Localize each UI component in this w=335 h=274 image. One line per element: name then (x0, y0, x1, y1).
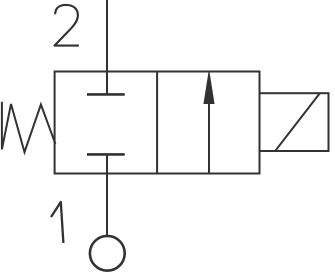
flow arrow stem (208, 101, 210, 174)
valve position divider (156, 72, 158, 174)
wire: port 1 stem (106, 154, 108, 236)
spring end bar (1, 102, 3, 150)
port label 2 (55, 5, 79, 46)
spring zigzag (2, 104, 56, 152)
port 1 connection circle (90, 236, 125, 271)
solenoid diagonal (275, 93, 319, 150)
closed port T-bar (port 1, bottom) (87, 153, 125, 156)
wire: port 2 stem (106, 0, 108, 94)
closed port T-bar (port 2, top) (87, 93, 125, 96)
port label 1 (51, 202, 63, 243)
flow arrow head (204, 72, 214, 104)
valve body outer rectangle (55, 72, 260, 174)
solenoid coil box (260, 93, 329, 151)
